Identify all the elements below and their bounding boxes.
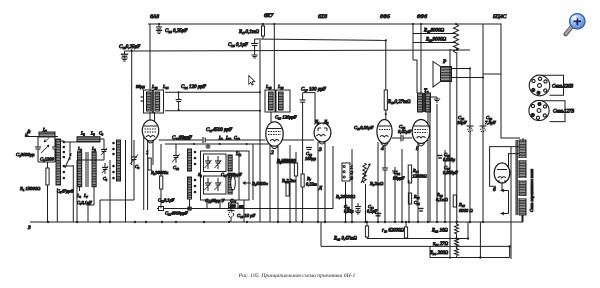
svg-text:Сеть220В: Сеть220В [552,85,573,90]
svg-text:R₇: R₇ [306,176,312,181]
wire signal tube2 to tube3 [283,139,314,141]
coil bar L-osc winding [117,140,121,181]
svg-text:L₁₄: L₁₄ [162,84,169,89]
capacitor C19 0,25uF with ground [121,51,132,61]
wire vert x523 transformer right [522,138,524,222]
svg-text:T₂: T₂ [424,89,429,94]
capacitor C30 cathode [382,168,388,222]
node dots IF1 [178,91,180,111]
capacitor C22 0,25uF to ground at x159 [156,24,162,34]
svg-text:6Ф5: 6Ф5 [380,14,390,20]
wire vert x131.7 long [131,49,133,165]
svg-text:R₁₉8000Ω: R₁₉8000Ω [423,29,445,34]
svg-text:C₁₇4500 μμF: C₁₇4500 μμF [206,128,233,133]
resistor chain R23 27Ω zigzag [455,239,459,247]
svg-text:C₂₂ 0,25μF: C₂₂ 0,25μF [165,29,188,34]
svg-text:R₂36000к: R₂36000к [150,170,169,175]
svg-text:7,5μF: 7,5μF [485,120,496,126]
wire vert x483 from box [482,74,484,222]
svg-text:З: З [28,225,31,231]
socket 127V [529,100,565,121]
wire vert x501 from box down then right [501,74,520,138]
wire vert x321 below bus [320,222,322,246]
wire vert x296 below R8 [295,176,297,222]
capacitor C24 0,1uF [419,209,424,212]
svg-text:L₁₃: L₁₃ [151,84,158,89]
wire IF1 sec bottom y110 [165,110,260,112]
wire vert x445 [444,150,446,222]
potentiometer R10 volume [361,163,370,183]
node dots y144 [193,143,248,145]
wire S2 drop [189,199,191,209]
wire grid vert x260 [259,40,261,222]
svg-text:C₁₂: C₁₂ [234,135,240,140]
wire vert x418 tube5 cathode [417,143,419,222]
wire vert x480 [479,222,481,258]
svg-text:6Ф6: 6Ф6 [417,14,427,20]
wire vert x365 pot down [365,184,367,222]
wire vert x409 [408,180,410,222]
svg-text:C₂₆ 120μμF: C₂₆ 120μμF [275,115,297,120]
wire vert x385 [384,144,386,169]
svg-text:C₂₂: C₂₂ [394,170,400,175]
wire horizontals left block [55,141,134,222]
svg-text:L₁₀: L₁₀ [225,135,232,140]
svg-text:90μμ: 90μμ [136,84,146,89]
resistor chain R24 200Ω zigzag [455,246,459,257]
wire 6A8 anode vertical [149,24,151,91]
svg-text:6000 Ω: 6000 Ω [459,208,473,213]
resistor R2 36000 [160,152,163,209]
arrow R5 [243,182,251,185]
ground T2 [431,97,441,102]
svg-text:R₁₆0,27mΩ: R₁₆0,27mΩ [387,100,411,105]
svg-text:12000Ω: 12000Ω [413,174,428,179]
wire vert x73 [72,165,74,222]
wire ground bus [30,221,523,223]
svg-text:3: 3 [318,147,322,153]
wire vert x318 [317,142,319,222]
wire tap line [413,42,456,44]
coil L5 vertical [92,152,96,187]
rectifier filament box [483,24,501,74]
svg-text:180μμ: 180μμ [305,156,317,161]
resistor R16 0,27MΩ [384,90,387,120]
wire bus y208.5 [157,146,333,209]
padder oval [231,176,236,190]
wire vert x278 [277,145,279,222]
wire IF1 sec top y92 [165,91,260,93]
svg-text:C₁₇ 100 μμF: C₁₇ 100 μμF [301,88,327,93]
svg-text:R₃35000Ω: R₃35000Ω [276,159,297,164]
wire fb y238 [367,238,468,240]
svg-text:r₁₉ 62000Ω: r₁₉ 62000Ω [382,229,404,234]
resistor R1 15000 [46,162,49,222]
svg-text:0,1mΩ: 0,1mΩ [436,197,449,203]
svg-text:6: 6 [493,187,496,193]
capacitor C33 tone bold [438,156,443,159]
trimmer C4 [101,146,107,155]
capacitor C32 90uuF [392,167,398,178]
capacitor C28 on cathode line [375,214,381,216]
wire mains vert [508,191,510,214]
capacitor C29 16uF electrolytic [467,126,474,132]
capacitor C10 series [202,137,206,143]
node ground bus dots [47,221,484,223]
wire vert x509.6 [509,246,511,257]
oscillator coils inside [228,155,232,171]
switch S3 windings left [188,149,192,171]
input cap box [35,137,58,163]
svg-text:C₆: C₆ [103,176,108,181]
resistor R15 6000Ω vertical [453,195,456,207]
svg-text:Сеть переменного тока: Сеть переменного тока [529,169,534,212]
resistor R11 12000Ω [408,165,411,204]
trimmer C13 mid [172,150,180,163]
svg-text:L₉: L₉ [218,135,223,140]
mains arrow 1 [502,189,509,192]
svg-text:L₇: L₇ [83,193,88,198]
svg-text:Сеть127В: Сеть127В [553,110,574,115]
wire fb y257.5 [430,257,510,259]
wire speaker cone lead [413,60,417,93]
socket 220V [529,75,563,96]
svg-text:L₄: L₄ [77,146,82,151]
tube U5 6F6 envelope [412,120,430,146]
wire from L1 to switch [55,136,58,138]
svg-text:C₁₉0,25μF: C₁₉0,25μF [119,45,141,50]
svg-text:16μF: 16μF [457,120,467,125]
mains arrow 2 [502,212,509,215]
tube U4 6F5 envelope [377,120,392,146]
wire T2 bottom to tube5 [427,112,429,124]
capacitor C23 across [176,92,182,110]
wires coil block [64,139,104,160]
switch S3 contacts [194,151,197,194]
wire inner vert x239 [238,151,240,200]
svg-text:Р: Р [442,59,447,65]
resistor R17 0,1MΩ vertical between H1,H2 [262,24,265,39]
coil L2 L3 top bar [77,137,100,142]
wire vert x511 [510,147,512,259]
svg-text:4: 4 [381,146,384,152]
svg-text:L₃: L₃ [90,131,95,136]
wire rectifier anode 2 [509,154,520,167]
wire screen H2 to R16 [385,40,387,90]
svg-text:R₂₂ 16Ω: R₂₂ 16Ω [431,229,448,234]
svg-text:C₂₄: C₂₄ [414,200,420,205]
wire speaker top to x470 [452,68,471,70]
wire IF2 to tube2 [270,112,272,122]
wire top bus B+ [148,23,483,25]
tube U1 6A8 envelope [142,120,158,143]
svg-text:0,22m: 0,22m [306,182,317,188]
wire IF1 second lead [154,112,156,121]
svg-text:R₁₇0,1mΩ: R₁₇0,1mΩ [238,30,259,35]
oscillator box [201,151,250,200]
svg-text:C₁₅4000μμF: C₁₅4000μμF [221,172,242,177]
svg-text:R₅5800о: R₅5800о [251,181,269,186]
svg-text:L₂: L₂ [80,131,85,136]
switch S2 contacts [112,142,115,180]
wire vert x270 [269,144,271,222]
svg-text:5Ц4С: 5Ц4С [493,14,507,20]
inner frame upper [204,154,227,172]
inner frame lower [204,176,227,194]
svg-text:R₁₅: R₁₅ [458,202,465,207]
capacitor C17 [300,93,306,174]
wire vert x470 [469,69,471,223]
wire vert x402 [401,149,403,222]
svg-text:R₁₂: R₁₂ [413,194,420,199]
svg-text:C₁₆ 10 μF: C₁₆ 10 μF [237,213,255,218]
variable capacitor C8 [130,140,138,175]
wire vert x378 tube4 cathode [377,142,379,222]
wire signal tube1 to tube2 [159,139,266,141]
wire C17 to diode plate [303,93,315,122]
transformer T2 output windings [418,93,431,112]
wire fb y246.4 [321,245,510,247]
svg-text:L₅: L₅ [91,146,96,151]
capacitor C28 7,5uF electrolytic [480,126,487,132]
wire vert x428 [427,139,429,222]
transformer power winding [516,140,527,215]
wire R2 top [160,144,162,152]
wire AVC bus [132,50,470,51]
wire vert x430 [429,96,431,222]
wire rectifier anode loop [490,147,519,187]
switch S1 contacts [63,141,66,180]
wire vert x457 divider bottom down [456,52,458,222]
svg-text:L₁₁: L₁₁ [235,151,242,156]
resistor R18 0,47MΩ [365,222,368,239]
svg-text:Д: Д [318,185,323,190]
svg-text:L₁₆: L₁₆ [277,84,284,89]
svg-text:C₂1300: C₂1300 [40,157,55,162]
svg-text:C₃: C₃ [99,131,104,136]
trimmer C5 [102,163,108,174]
coil L4 vertical [78,152,82,187]
wire vert x430 below [429,246,431,257]
svg-text:R₁ 15000Ω: R₁ 15000Ω [19,186,41,191]
svg-text:C₁₄68μμ F: C₁₄68μμ F [205,198,225,203]
resistor R6 2,2M [286,183,289,196]
svg-text:C₂₀0,01μF: C₂₀0,01μF [354,125,374,131]
wire screen bus upper [413,33,456,35]
wire vert x450 [449,49,451,259]
wire speaker bottom to x483 [452,77,484,79]
capacitor C26 0,02 to ground [355,203,361,214]
capacitor C25 0,1uF to ground [251,39,258,58]
fuse on bus [159,207,164,211]
tube U3 6X6 envelope [314,123,331,144]
coil L1 [39,132,55,142]
transformer IF1 windings [141,90,164,113]
transformer IF2 windings [265,90,290,112]
svg-text:L₁: L₁ [42,127,47,132]
connector gramophone pins [342,163,350,181]
capacitor C16 10uF electrolytic [228,209,235,223]
svg-text:C₅47μμФ: C₅47μμФ [57,189,74,194]
svg-text:к₂₃ 27Ω: к₂₃ 27Ω [433,242,449,247]
resistor R4 cathode [148,158,151,170]
wire transformer bottom [521,215,523,222]
svg-text:6К7: 6К7 [264,13,274,19]
wire vert x147.6 tube1 down [147,141,149,210]
wire T2 vert x413 [412,24,414,60]
wire vert x253 osc right [252,144,254,200]
wire vert x143.7 [143,135,145,210]
switch S1 arm [65,154,71,168]
resistor R19 R20 divider zigzag vertical [454,24,459,53]
tube U6 5Ц4С rectifier [494,163,510,183]
node dots speaker [456,48,484,79]
wire 6A8 anode to tube [149,112,151,120]
wire vert x153 tube1 down [152,142,154,166]
coupling C23 0,01uF tube4->tube5 [392,135,412,142]
svg-text:0,01μF: 0,01μF [398,129,411,135]
svg-text:R₁₈ 0,47mΩ: R₁₈ 0,47mΩ [333,237,357,242]
svg-text:C₁₃: C₁₃ [173,165,179,170]
svg-text:2: 2 [271,150,274,156]
tube U2 6K7 envelope [266,122,283,149]
resistor R7 0,22M [301,174,304,222]
wire top of osc area y144 [165,143,270,145]
wire vert x468 [467,222,469,239]
wire vert x325 [324,142,326,222]
capacitor C18 [306,148,312,150]
svg-text:Рис. 105. Принципиальная схема: Рис. 105. Принципиальная схема приемника… [238,273,356,279]
svg-text:6Х6: 6Х6 [318,14,327,20]
node fb dots [366,221,511,259]
wire vert x352 [351,149,353,222]
detector load: resistor R8 35000 [294,152,297,176]
svg-text:L₁₅: L₁₅ [265,84,272,89]
resistor R21 62000 [404,222,407,239]
capacitor on S2 drop [187,207,191,211]
svg-text:C₁3000μμ: C₁3000μμ [16,152,35,157]
svg-text:C₂₄4000μμF: C₂₄4000μμF [165,211,188,216]
node dot x260 [259,91,261,112]
wire vert x437 [436,104,438,222]
svg-text:6А8: 6А8 [150,14,159,20]
capacitor on top line [206,144,211,148]
node dot below R16 [385,113,387,115]
svg-text:R₉2mΩ: R₉2mΩ [369,181,384,186]
svg-text:C₁₀68μμF: C₁₀68μμF [172,136,193,141]
wire 6K7 anode vert from H1 [273,24,275,90]
coil bar S1 winding [56,139,61,185]
wire vert x290 [289,145,291,222]
wire vert x395 [394,178,396,222]
wire verticals below osc box [206,200,208,209]
wire C13 top [175,144,177,150]
core lines [85,152,87,187]
resistor chain R22 16Ω zigzag [455,222,459,238]
node junction dots top [131,23,459,52]
svg-text:C₂₁ 120 μμF: C₂₁ 120 μμF [181,85,207,90]
trimmer bank inside [205,156,222,191]
magnifier zoom icon [566,14,585,35]
svg-text:R₂₄ 200Ω: R₂₄ 200Ω [429,251,449,256]
wire vert x345 connector down [345,182,347,222]
wire rectifier cathode down [501,183,503,191]
svg-text:180: 180 [229,203,236,208]
svg-text:μμ: μμ [239,203,243,208]
svg-text:C₂₅ 0,1μF: C₂₅ 0,1μF [228,43,249,48]
antenna A [25,131,39,137]
wire vert x125.5 [125,140,127,222]
speaker P cone [433,62,452,88]
cursor arrow [249,76,255,86]
wire T2 primary top to bus [420,24,422,93]
wires below coils [79,187,81,191]
svg-text:C₈: C₈ [135,164,140,169]
wire screen bus lower [255,39,386,40]
svg-text:R₂₀9000Ω: R₂₀9000Ω [425,38,447,43]
